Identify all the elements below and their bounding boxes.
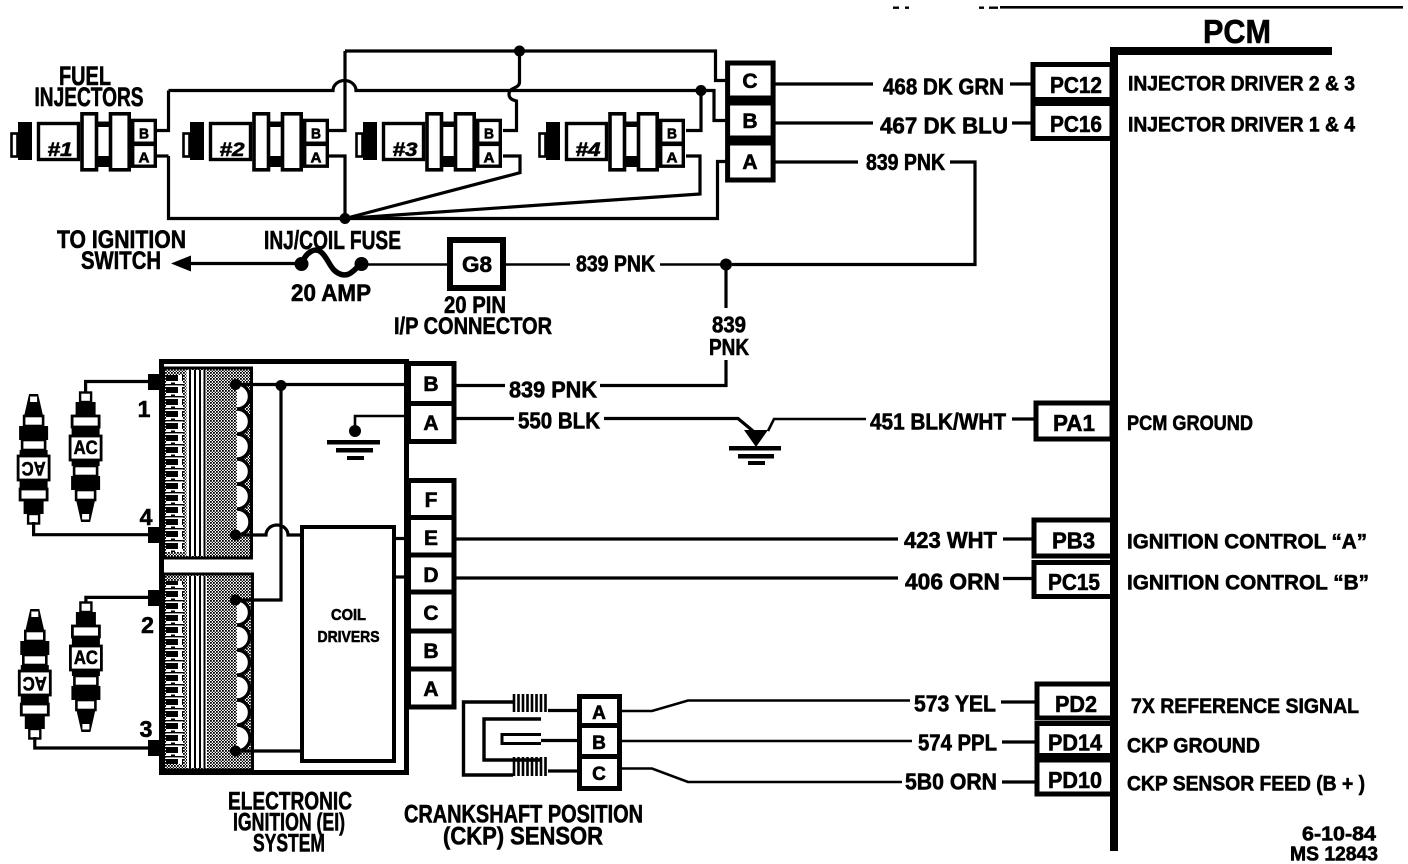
wire coil drivers to pin E xyxy=(394,537,408,540)
spark plug 1 xyxy=(70,393,101,523)
svg-text:839 PNK: 839 PNK xyxy=(576,251,655,277)
svg-text:451 BLK/WHT: 451 BLK/WHT xyxy=(870,409,1006,435)
svg-text:C: C xyxy=(742,70,757,93)
svg-text:F: F xyxy=(425,489,438,512)
svg-text:PC12: PC12 xyxy=(1050,72,1102,98)
CKP pin B box xyxy=(580,726,620,757)
svg-text:INJECTOR DRIVER 1 & 4: INJECTOR DRIVER 1 & 4 xyxy=(1128,113,1355,137)
wire 573 YEL to PD2 xyxy=(620,691,1036,717)
svg-text:PCM: PCM xyxy=(1203,13,1271,50)
svg-text:IGNITION CONTROL “B”: IGNITION CONTROL “B” xyxy=(1127,571,1369,595)
wire tap injector #2 pin B to top bus xyxy=(329,51,345,131)
terminal PC12 xyxy=(1033,65,1112,100)
svg-text:C: C xyxy=(423,602,438,625)
svg-text:INJ/COIL FUSE: INJ/COIL FUSE xyxy=(264,225,401,255)
terminal PD10 xyxy=(1037,760,1113,794)
svg-text:SWITCH: SWITCH xyxy=(81,247,161,275)
wire coil 2 bottom to coil drivers xyxy=(236,749,303,752)
wire coil drivers to pin D xyxy=(394,575,408,578)
wire net 839 PNK feed bus below injectors xyxy=(169,156,728,219)
wire fuse to G8 xyxy=(368,263,449,266)
svg-text:INJECTORS: INJECTORS xyxy=(35,82,144,112)
coil drivers box xyxy=(302,527,394,761)
wire 451 BLK/WHT to ground xyxy=(768,409,1034,435)
spark plug 4 (inverted) xyxy=(18,394,49,524)
svg-text:PD2: PD2 xyxy=(1055,691,1097,717)
EI terminal nub 3 xyxy=(148,740,165,756)
svg-text:D: D xyxy=(423,564,438,587)
ground inside EI module xyxy=(327,416,408,460)
wire injector #3 pin A diagonal to feed bus xyxy=(349,156,520,218)
node coil 2 primary bottom xyxy=(230,746,241,757)
svg-text:#2: #2 xyxy=(220,140,246,161)
PCM boundary line xyxy=(1110,47,1118,851)
EI pin B2 box xyxy=(409,631,455,669)
ignition coil 2 (stippled block) xyxy=(164,574,253,770)
CKP pin C box xyxy=(580,757,620,789)
svg-text:406 ORN: 406 ORN xyxy=(905,569,1000,595)
label FUEL INJECTORS xyxy=(35,61,144,112)
terminal PC16 xyxy=(1033,104,1112,139)
svg-text:PC16: PC16 xyxy=(1050,111,1102,137)
svg-text:B: B xyxy=(592,733,606,754)
label TO IGNITION SWITCH xyxy=(57,226,186,275)
wire CKP coil to pin A xyxy=(548,709,579,712)
wire 406 ORN to PC15 xyxy=(454,569,1033,595)
label ELECTRONIC IGNITION (EI) SYSTEM xyxy=(228,788,352,858)
CKP sensor pickup xyxy=(464,694,546,776)
node junction on second bus at x701 xyxy=(696,85,707,96)
wire 550 BLK from EI pin A to ground xyxy=(454,408,753,434)
svg-text:468 DK GRN: 468 DK GRN xyxy=(883,74,1004,100)
EI terminal nub 2 xyxy=(148,590,165,606)
terminal PB3 xyxy=(1034,520,1113,556)
wire 839 PNK drop to EI module pin B xyxy=(600,265,749,386)
EI module outline xyxy=(162,362,407,773)
svg-text:574 PPL: 574 PPL xyxy=(918,730,997,756)
svg-text:2: 2 xyxy=(141,612,154,638)
EI pin B box xyxy=(409,364,455,404)
svg-text:4: 4 xyxy=(140,504,153,530)
svg-text:G8: G8 xyxy=(462,252,492,277)
node junction on top bus at x519 xyxy=(514,46,525,57)
EI terminal nub 4 xyxy=(148,527,165,543)
ground chassis (550 BLK / 451 BLK/WHT) xyxy=(729,430,781,465)
spark plug 2 xyxy=(70,603,101,733)
wire CKP coil to pin C xyxy=(548,769,579,772)
wire CKP core to pin B xyxy=(541,739,579,742)
label CRANKSHAFT POSITION (CKP) SENSOR xyxy=(404,801,643,851)
svg-text:1: 1 xyxy=(138,396,151,422)
svg-text:839 PNK: 839 PNK xyxy=(866,149,945,175)
node junction feed bus at x345 xyxy=(340,213,351,224)
svg-text:#3: #3 xyxy=(393,140,419,161)
node coil 1 secondary top xyxy=(230,379,241,390)
wire coil feeds to module pin B xyxy=(236,383,409,386)
wire plug 3 to EI terminal 3 xyxy=(35,737,150,748)
svg-text:B: B xyxy=(742,110,757,133)
node junction feed inside module xyxy=(276,380,287,391)
svg-text:#1: #1 xyxy=(48,140,73,161)
svg-text:20 AMP: 20 AMP xyxy=(291,280,371,307)
wire 423 WHT to PB3 xyxy=(454,527,1033,553)
svg-text:A: A xyxy=(423,412,438,435)
EI pin F box xyxy=(409,481,455,518)
wire junction down to coil 2 top xyxy=(236,386,282,601)
svg-text:COIL: COIL xyxy=(331,607,366,624)
injector #2 xyxy=(184,114,328,170)
EI terminal nub 1 xyxy=(148,374,165,390)
wire net 468 DK GRN top bus (injector driver 2 & 3) xyxy=(345,51,727,81)
svg-text:PD10: PD10 xyxy=(1048,767,1102,793)
EI pin A2 box xyxy=(409,669,455,707)
svg-text:PD14: PD14 xyxy=(1048,730,1102,756)
wire 839 PNK from EI pin B xyxy=(454,377,597,403)
svg-text:B: B xyxy=(423,373,438,396)
spark plug 3 (inverted) xyxy=(19,609,50,739)
terminal PD2 xyxy=(1037,684,1113,718)
svg-text:I/P CONNECTOR: I/P CONNECTOR xyxy=(394,313,552,340)
wire injector #1 pin A stub xyxy=(157,154,169,157)
svg-text:INJECTOR DRIVER 2 & 3: INJECTOR DRIVER 2 & 3 xyxy=(1128,72,1355,96)
wire injector #4 pin A diagonal to feed bus xyxy=(352,156,700,218)
svg-text:423 WHT: 423 WHT xyxy=(904,527,997,553)
label 20 PIN I/P CONNECTOR xyxy=(394,292,552,340)
fuse INJ/COIL 20 AMP xyxy=(295,250,369,275)
wire coil 1 bottom to coil drivers with hop xyxy=(236,525,303,535)
svg-text:IGNITION CONTROL “A”: IGNITION CONTROL “A” xyxy=(1127,530,1367,554)
svg-text:550 BLK: 550 BLK xyxy=(518,408,600,434)
svg-text:CKP SENSOR FEED (B + ): CKP SENSOR FEED (B + ) xyxy=(1127,772,1365,796)
svg-text:C: C xyxy=(592,764,606,785)
svg-text:PB3: PB3 xyxy=(1052,528,1095,554)
connector C pin box xyxy=(728,63,774,98)
svg-text:B: B xyxy=(423,640,438,663)
terminal PD14 xyxy=(1037,724,1113,756)
svg-text:839 PNK: 839 PNK xyxy=(509,377,597,403)
svg-text:PA1: PA1 xyxy=(1053,410,1095,436)
wire tap injector #4 pin B xyxy=(686,91,701,131)
ignition coil 1 (stippled block) xyxy=(164,368,252,558)
node coil 2 primary top xyxy=(230,595,241,606)
svg-text:A: A xyxy=(423,678,438,701)
svg-text:6-10-84: 6-10-84 xyxy=(1302,824,1377,846)
injector #4 xyxy=(540,114,684,170)
wire net 467 DK BLU second bus (injector driver 1 & 4) xyxy=(169,81,728,121)
EI pin C box xyxy=(409,592,455,631)
svg-text:SYSTEM: SYSTEM xyxy=(253,830,325,858)
wire 574 PPL to PD14 xyxy=(620,730,1036,756)
EI pin A box xyxy=(409,404,455,442)
wire 580 ORN to PD10 xyxy=(620,769,1036,795)
svg-text:E: E xyxy=(424,527,438,550)
wire tap injector #1 pin B xyxy=(157,91,169,131)
svg-text:A: A xyxy=(742,151,757,174)
svg-text:(CKP) SENSOR: (CKP) SENSOR xyxy=(443,823,603,851)
terminal PA1 xyxy=(1036,403,1112,439)
svg-text:A: A xyxy=(592,703,606,724)
svg-text:7X REFERENCE SIGNAL: 7X REFERENCE SIGNAL xyxy=(1131,694,1359,718)
svg-text:CKP GROUND: CKP GROUND xyxy=(1127,734,1260,758)
svg-text:5B0 ORN: 5B0 ORN xyxy=(905,769,997,795)
wire tap injector #3 pin B with crossover hop xyxy=(503,51,520,131)
connector A pin box xyxy=(728,143,774,180)
terminal PC15 xyxy=(1034,563,1113,597)
svg-text:DRIVERS: DRIVERS xyxy=(318,629,380,646)
node junction 839 PNK at fuse line xyxy=(720,259,732,271)
connector G8 20 pin I/P xyxy=(450,240,503,288)
connector B pin box xyxy=(728,103,774,138)
EI pin E box xyxy=(409,518,455,556)
svg-text:573 YEL: 573 YEL xyxy=(914,691,996,717)
wire to ignition switch with arrow xyxy=(171,256,296,272)
svg-text:PNK: PNK xyxy=(709,334,749,360)
wire plug 4 to EI terminal 4 xyxy=(34,522,150,535)
wire 468 DK GRN to PC12 xyxy=(774,74,1031,100)
wire 467 DK BLU to PC16 xyxy=(774,113,1031,139)
wire G8 to junction with 839 PNK label xyxy=(503,251,726,277)
svg-text:PCM GROUND: PCM GROUND xyxy=(1127,411,1253,435)
wire plug 2 to EI terminal 2 xyxy=(86,597,150,603)
node coil 1 secondary bottom xyxy=(230,530,241,541)
svg-text:#4: #4 xyxy=(576,140,602,161)
CKP pin A box xyxy=(580,697,620,726)
wire injector #2 pin A drop xyxy=(329,156,345,219)
EI pin D box xyxy=(409,555,455,592)
wire 839 PNK from A pin down to fuse line xyxy=(732,149,975,265)
svg-text:PC15: PC15 xyxy=(1048,569,1100,595)
PCM top bar xyxy=(1114,47,1332,55)
injector #3 xyxy=(357,114,501,170)
svg-text:3: 3 xyxy=(140,716,153,742)
wire plug 1 to EI terminal 1 xyxy=(86,382,150,394)
svg-text:467 DK BLU: 467 DK BLU xyxy=(880,113,1008,139)
injector #1 xyxy=(12,114,156,170)
wire page top rule xyxy=(893,6,1403,9)
svg-text:MS 12843: MS 12843 xyxy=(1290,844,1378,864)
